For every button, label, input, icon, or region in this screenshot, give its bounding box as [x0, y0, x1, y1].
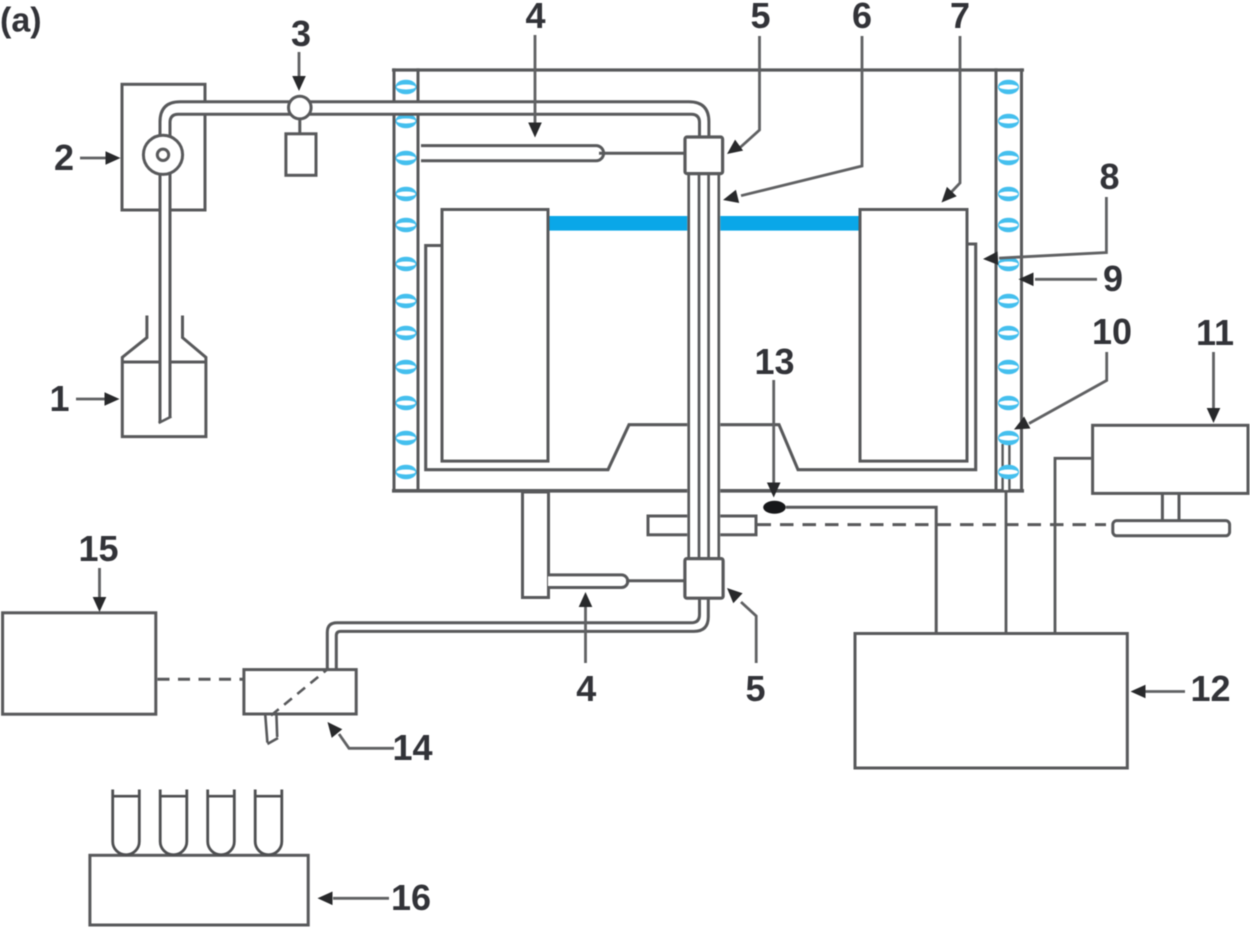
svg-text:12: 12: [1190, 668, 1230, 709]
pedestal support under chamber: [523, 492, 549, 598]
test tube 2: [160, 790, 187, 855]
svg-text:3: 3: [291, 13, 311, 54]
svg-text:5: 5: [745, 668, 765, 709]
test tube 4: [255, 790, 282, 855]
test tube 3: [208, 790, 235, 855]
chamber bottom wall: [392, 489, 1024, 493]
buffer tank walls and stepped bottom: [426, 244, 976, 470]
svg-text:11: 11: [1196, 312, 1234, 353]
svg-text:10: 10: [1092, 311, 1132, 352]
capillary bundle line 2: [698, 172, 701, 560]
monitor base: [1113, 521, 1230, 536]
top connector block 5: [685, 137, 723, 174]
monitor stand left line: [1161, 493, 1164, 520]
top capillary line: [599, 152, 686, 155]
bottle liquid seam line: [122, 361, 206, 364]
svg-text:1: 1: [49, 378, 69, 419]
supply tube white core: [166, 108, 704, 414]
outflow tube white core: [332, 598, 704, 669]
bottom connector block 5: [685, 559, 723, 599]
pump box 2: [122, 84, 205, 210]
wire from electrode 10 to controller 12: [1005, 490, 1008, 633]
fraction dispenser 14 body: [244, 670, 356, 714]
outflow tube lower line: [336, 599, 708, 670]
svg-text:13: 13: [754, 341, 794, 382]
blue gel capillary line 6: [546, 216, 862, 231]
right electrode block 7: [860, 210, 967, 462]
dashed scanner line: [758, 523, 1107, 526]
capillary bundle line 1: [687, 172, 690, 560]
dashed link box 15 to dispenser 14: [158, 678, 243, 681]
power supply box 15: [3, 613, 156, 714]
test tube rack 16: [90, 855, 308, 925]
dispenser 14 dashed diagonal: [271, 668, 329, 716]
left cooling bar wall lines: [393, 68, 396, 492]
supply tube inner line: [170, 114, 700, 416]
bottom capillary holder tube 4: [548, 575, 628, 588]
monitor stand right line: [1178, 493, 1181, 520]
svg-text:16: 16: [391, 877, 431, 918]
capillary bundle line 3: [707, 172, 710, 560]
dispenser 14 spout: [265, 714, 278, 744]
svg-text:4: 4: [576, 668, 596, 709]
left electrode block: [442, 210, 548, 462]
right bar coolant ellipses: [998, 80, 1019, 480]
valve 3 stem: [298, 119, 301, 135]
pump rotor hub: [157, 149, 168, 160]
capillary bundle line 4: [717, 172, 720, 560]
svg-text:(a): (a): [0, 2, 42, 40]
svg-text:15: 15: [78, 528, 118, 569]
top capillary holder tube 4: [421, 146, 604, 161]
right cooling bar wall lines: [995, 68, 998, 492]
pump rotor circle: [143, 135, 182, 174]
supply tube bottle tip bevel: [159, 417, 172, 424]
svg-text:7: 7: [950, 0, 970, 36]
supply tube outer line: [160, 102, 709, 423]
outflow tube upper line: [327, 599, 699, 670]
valve 3 body circle: [289, 96, 312, 119]
wire from photodiode to controller 12: [786, 507, 936, 632]
svg-text:4: 4: [525, 0, 545, 36]
svg-text:8: 8: [1099, 156, 1119, 197]
chamber top wall: [392, 68, 1024, 71]
capillary bundle white core: [687, 172, 720, 560]
svg-text:5: 5: [750, 0, 770, 36]
monitor 11 screen: [1093, 425, 1248, 493]
svg-text:9: 9: [1103, 258, 1123, 299]
svg-text:2: 2: [54, 137, 74, 178]
wire from controller 12 to monitor 11: [1055, 458, 1091, 633]
buffer bottle 1: [122, 316, 206, 437]
svg-text:6: 6: [852, 0, 872, 36]
test tube 1: [113, 790, 140, 855]
detector holder bar: [648, 516, 756, 535]
controller box 12: [855, 634, 1127, 769]
svg-text:14: 14: [392, 727, 432, 768]
valve 3 actuator box: [286, 134, 316, 176]
left bar coolant ellipses: [395, 80, 416, 480]
bottom capillary line: [626, 579, 686, 582]
electrode tube 10 inside right bar: [1002, 444, 1010, 491]
photodiode black ellipse 13: [763, 501, 786, 514]
